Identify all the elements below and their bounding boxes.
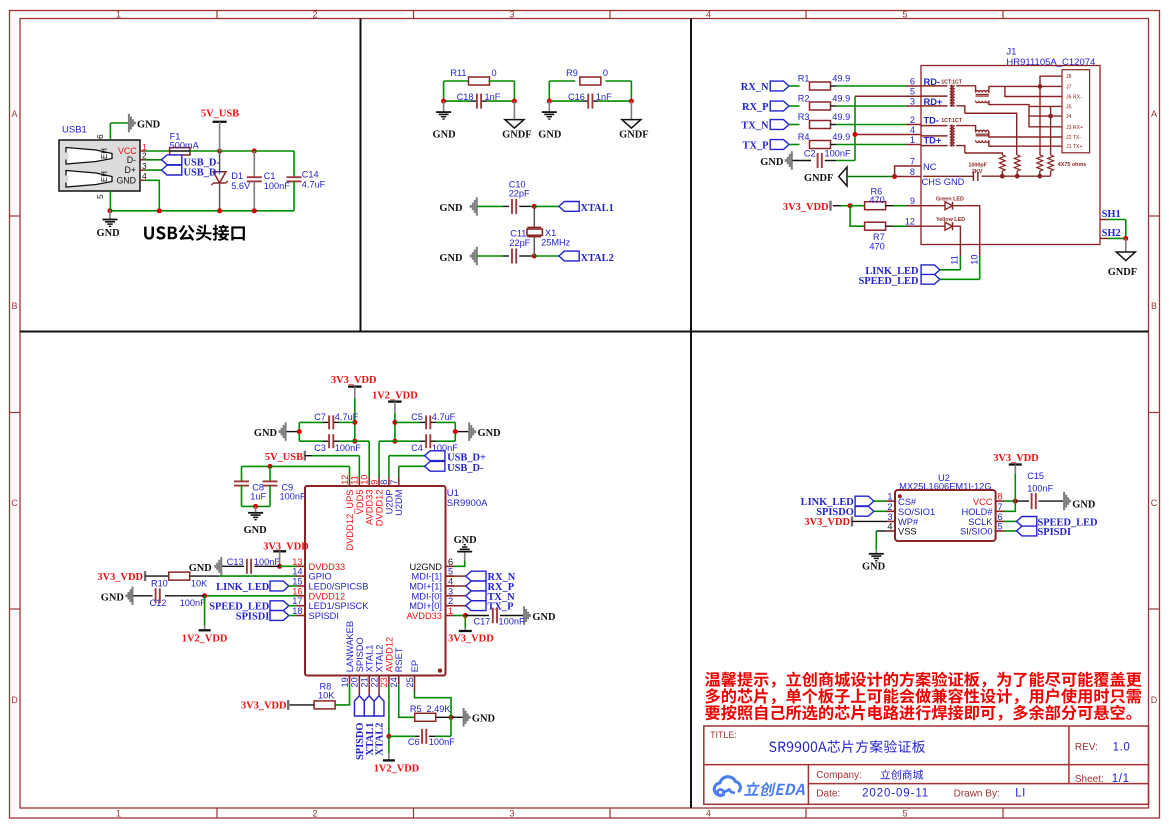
svg-text:0: 0 [492,68,497,78]
svg-text:R2: R2 [798,94,810,104]
svg-text:DVDD12: DVDD12 [374,490,384,527]
svg-text:C5: C5 [411,412,423,422]
svg-text:21: 21 [360,677,370,687]
svg-text:9: 9 [910,196,915,206]
svg-text:1uF: 1uF [250,492,266,502]
svg-text:3: 3 [887,512,892,522]
svg-text:49.9: 49.9 [832,74,850,84]
svg-text:GND: GND [97,228,120,239]
svg-text:Green LED: Green LED [936,196,964,202]
svg-text:LI: LI [1015,788,1026,800]
svg-text:GND: GND [439,203,462,214]
svg-text:TX_P: TX_P [488,602,515,613]
svg-text:C6: C6 [408,737,420,747]
svg-text:7: 7 [389,480,399,485]
svg-text:7: 7 [910,156,915,166]
svg-text:D-: D- [127,155,136,165]
svg-text:3V3_VDD: 3V3_VDD [241,701,287,712]
svg-text:2: 2 [448,596,453,606]
svg-text:CS#: CS# [898,497,917,507]
svg-text:C15: C15 [1027,471,1044,481]
svg-text:Sheet:: Sheet: [1075,774,1104,785]
svg-text:GND: GND [478,428,501,439]
svg-text:SPISDO: SPISDO [355,637,365,672]
svg-text:10: 10 [970,254,980,264]
svg-text:SCLK: SCLK [968,517,993,527]
svg-text:WP#: WP# [898,517,919,527]
svg-text:16: 16 [292,586,302,596]
svg-text:USB_D+: USB_D+ [184,168,223,179]
svg-text:J2 TX-: J2 TX- [1066,135,1081,141]
svg-text:GNDF: GNDF [502,129,531,140]
svg-text:4: 4 [706,9,711,19]
svg-text:MDI+[0]: MDI+[0] [409,601,442,611]
svg-text:12: 12 [340,475,350,485]
svg-text:J1: J1 [1006,47,1016,58]
svg-text:100nF: 100nF [280,492,306,502]
svg-text:3V3_VDD: 3V3_VDD [331,375,377,386]
svg-text:GND: GND [862,561,885,572]
svg-text:NC: NC [923,162,937,172]
svg-text:100nF: 100nF [264,181,290,191]
svg-text:R5: R5 [410,704,422,714]
svg-text:1nF: 1nF [596,92,612,102]
svg-text:3V3_VDD: 3V3_VDD [448,634,494,645]
svg-text:5: 5 [910,87,915,97]
svg-text:3V3_VDD: 3V3_VDD [993,453,1039,464]
svg-text:D: D [11,695,18,705]
svg-text:RSET: RSET [394,647,404,672]
svg-text:C7: C7 [314,412,326,422]
svg-text:USB1: USB1 [62,125,87,136]
svg-text:4.7uF: 4.7uF [302,179,326,189]
svg-text:TX_P: TX_P [743,140,770,151]
svg-text:20: 20 [350,677,360,687]
svg-text:RX_P: RX_P [742,102,769,113]
svg-text:LINK_LED: LINK_LED [216,582,269,593]
svg-text:500mA: 500mA [170,140,200,150]
svg-text:470: 470 [869,241,884,251]
svg-text:VCC: VCC [973,497,993,507]
svg-text:100nF: 100nF [429,737,455,747]
svg-text:4: 4 [448,577,453,587]
svg-text:6: 6 [448,557,453,567]
svg-text:2.49K: 2.49K [427,704,452,714]
svg-text:5: 5 [448,567,453,577]
svg-text:MDI-[0]: MDI-[0] [412,591,442,601]
svg-text:GND: GND [189,563,212,574]
svg-text:TITLE:: TITLE: [710,730,737,740]
svg-text:1nF: 1nF [485,92,501,102]
svg-text:GND: GND [472,714,495,725]
svg-text:SR9900A: SR9900A [447,498,488,509]
svg-text:U2DM: U2DM [394,490,404,516]
svg-text:TD+: TD+ [924,136,942,146]
svg-text:A: A [11,109,17,119]
svg-text:VDD5: VDD5 [355,490,365,515]
svg-text:2: 2 [312,9,317,19]
svg-text:12: 12 [905,217,915,227]
svg-text:C1: C1 [264,171,276,181]
svg-text:2: 2 [887,502,892,512]
svg-text:11: 11 [950,255,960,265]
svg-text:GPIO: GPIO [309,572,332,582]
svg-text:10K: 10K [318,691,335,701]
svg-text:GND: GND [439,253,462,264]
svg-text:C4: C4 [411,443,423,453]
svg-text:1.0: 1.0 [1113,741,1131,753]
svg-text:J4: J4 [1066,114,1072,120]
svg-text:R1: R1 [798,74,810,84]
svg-text:1: 1 [116,808,121,818]
svg-text:8: 8 [910,167,915,177]
svg-text:1CT:1CT: 1CT:1CT [941,80,963,86]
svg-text:C2: C2 [804,149,816,159]
svg-text:1V2_VDD: 1V2_VDD [372,390,418,401]
svg-text:VSS: VSS [898,527,917,537]
svg-text:SH1: SH1 [1102,209,1121,220]
svg-text:2KV: 2KV [972,169,983,175]
svg-text:SPEED_LED: SPEED_LED [858,276,918,287]
svg-text:J1 TX+: J1 TX+ [1066,144,1082,150]
svg-text:2020-09-11: 2020-09-11 [862,788,929,800]
svg-text:GND: GND [254,428,277,439]
svg-text:49.9: 49.9 [832,94,850,104]
svg-text:C16: C16 [568,92,585,102]
svg-text:3V3_VDD: 3V3_VDD [783,202,829,213]
svg-text:B: B [11,301,17,311]
svg-text:6: 6 [998,512,1003,522]
svg-text:XTAL2: XTAL2 [581,253,614,264]
svg-text:470: 470 [869,195,884,205]
svg-text:100nF: 100nF [1027,483,1053,493]
svg-text:D: D [1151,695,1158,705]
svg-text:10K: 10K [191,579,208,589]
svg-text:5V_USB: 5V_USB [265,452,303,463]
svg-text:3V3_VDD: 3V3_VDD [97,572,143,583]
svg-text:4: 4 [887,522,892,532]
svg-text:9: 9 [369,480,379,485]
svg-text:J7: J7 [1066,84,1072,90]
svg-text:XTAL2: XTAL2 [375,723,386,756]
svg-text:3: 3 [448,586,453,596]
svg-text:100nF: 100nF [180,598,206,608]
svg-text:C: C [11,498,18,508]
svg-text:13: 13 [292,557,302,567]
svg-text:Drawn By:: Drawn By: [954,789,1000,800]
svg-text:GND: GND [538,129,561,140]
svg-text:SPISDI: SPISDI [236,611,270,622]
svg-text:4X75 ohms: 4X75 ohms [1058,162,1086,168]
svg-text:2: 2 [910,115,915,125]
svg-text:GND: GND [532,612,555,623]
svg-text:DVDD33: DVDD33 [309,562,346,572]
svg-text:GND: GND [454,535,477,546]
svg-text:U2GND: U2GND [409,562,442,572]
svg-text:XTAL1: XTAL1 [581,203,614,214]
svg-text:LED1/SPISCK: LED1/SPISCK [309,601,370,611]
svg-text:22pF: 22pF [509,238,530,248]
svg-text:AVDD33: AVDD33 [365,490,375,525]
svg-text:GNDF: GNDF [619,129,648,140]
svg-text:GND: GND [116,176,136,186]
svg-text:HOLD#: HOLD# [961,507,993,517]
svg-text:1: 1 [910,135,915,145]
svg-text:GNDF: GNDF [1108,267,1137,278]
svg-text:0: 0 [603,68,608,78]
svg-text:Date:: Date: [816,789,840,800]
svg-text:8: 8 [998,492,1003,502]
svg-text:4.7uF: 4.7uF [432,412,456,422]
svg-text:3: 3 [910,96,915,106]
svg-text:R3: R3 [798,112,810,122]
svg-text:Company:: Company: [816,770,862,781]
svg-text:RX_N: RX_N [741,82,769,93]
svg-text:GND: GND [101,592,124,603]
svg-text:USB_D-: USB_D- [447,463,484,474]
svg-text:C18: C18 [457,92,474,102]
svg-text:LANWAKEB: LANWAKEB [345,621,355,672]
svg-text:DVDD12: DVDD12 [309,591,346,601]
svg-text:R11: R11 [450,68,466,78]
svg-text:2: 2 [312,808,317,818]
svg-text:EH: EH [100,148,109,159]
svg-text:C17: C17 [473,616,490,626]
svg-text:1: 1 [448,606,453,616]
svg-text:10: 10 [360,475,370,485]
svg-text:1/1: 1/1 [1112,773,1130,785]
svg-text:USB_D-: USB_D- [184,157,221,168]
svg-text:U2DP: U2DP [384,490,394,515]
svg-text:R10: R10 [151,579,168,589]
svg-text:J3 RX+: J3 RX+ [1066,125,1083,131]
svg-text:A: A [1151,109,1157,119]
svg-text:14: 14 [292,567,302,577]
svg-text:25MHz: 25MHz [541,238,571,248]
svg-text:5: 5 [95,194,105,199]
svg-text:1V2_VDD: 1V2_VDD [182,633,228,644]
svg-text:EH: EH [100,171,109,182]
svg-text:1V2_VDD: 1V2_VDD [374,763,420,774]
svg-text:15: 15 [292,577,302,587]
svg-text:3V3_VDD: 3V3_VDD [804,517,850,528]
svg-text:DVDD12_UPS: DVDD12_UPS [345,490,355,551]
svg-text:R7: R7 [873,232,885,242]
svg-text:24: 24 [389,677,399,687]
svg-text:5: 5 [998,522,1003,532]
svg-text:22pF: 22pF [509,189,530,199]
svg-text:C: C [1151,498,1158,508]
svg-text:11: 11 [350,475,360,485]
svg-text:GNDF: GNDF [804,173,833,184]
svg-text:8: 8 [379,480,389,485]
svg-text:R9: R9 [566,68,578,78]
svg-text:22: 22 [369,677,379,687]
svg-text:100nF: 100nF [499,616,525,626]
svg-text:C13: C13 [227,557,244,567]
svg-text:17: 17 [292,596,302,606]
svg-text:C14: C14 [302,170,319,180]
svg-text:AVDD33: AVDD33 [407,611,442,621]
svg-text:MDI+[1]: MDI+[1] [409,582,442,592]
svg-text:6: 6 [95,134,105,139]
svg-text:GND: GND [244,525,267,536]
svg-text:49.9: 49.9 [832,112,850,122]
svg-text:XTAL2: XTAL2 [374,645,384,673]
svg-text:AVDD12: AVDD12 [384,637,394,672]
svg-text:USB_D+: USB_D+ [447,453,486,464]
svg-text:5: 5 [902,808,907,818]
svg-text:100nF: 100nF [825,149,851,159]
svg-text:SH2: SH2 [1102,228,1121,239]
svg-text:5V_USB: 5V_USB [201,109,239,120]
svg-text:J6 RX-: J6 RX- [1066,95,1082,101]
svg-text:J5: J5 [1066,104,1072,110]
svg-text:C3: C3 [314,443,326,453]
svg-text:D+: D+ [125,165,137,175]
svg-text:C11: C11 [510,228,526,238]
svg-text:B: B [1151,301,1157,311]
svg-text:49.9: 49.9 [832,132,850,142]
svg-text:LED0/SPICSB: LED0/SPICSB [309,582,369,592]
svg-text:GND: GND [137,119,160,130]
svg-text:SPISDI: SPISDI [1038,527,1072,538]
svg-text:CHS GND: CHS GND [922,177,965,187]
svg-text:23: 23 [379,677,389,687]
svg-text:4.7uF: 4.7uF [335,412,359,422]
svg-text:J8: J8 [1066,74,1072,80]
svg-text:19: 19 [340,677,350,687]
svg-text:5: 5 [902,9,907,19]
svg-text:TX_N: TX_N [741,120,769,131]
svg-text:GND: GND [760,157,783,168]
svg-text:SPISDI: SPISDI [309,611,339,621]
svg-text:SI/SIO0: SI/SIO0 [960,527,993,537]
svg-text:1CT:1CT: 1CT:1CT [941,118,963,124]
svg-text:1: 1 [116,9,121,19]
svg-text:1: 1 [887,492,892,502]
svg-text:100nF: 100nF [335,443,361,453]
svg-text:GND: GND [1072,499,1095,510]
svg-text:25: 25 [405,677,415,687]
svg-text:GND: GND [433,129,456,140]
svg-text:D1: D1 [231,171,243,181]
svg-text:SO/SIO1: SO/SIO1 [898,507,935,517]
svg-text:4: 4 [706,808,711,818]
svg-text:HR911105A_C12074: HR911105A_C12074 [1006,57,1095,68]
svg-text:3: 3 [509,9,514,19]
svg-text:C12: C12 [150,598,167,608]
svg-text:18: 18 [292,606,302,616]
svg-text:100nF: 100nF [254,557,280,567]
svg-text:1000pF: 1000pF [968,162,987,168]
svg-text:7: 7 [998,502,1003,512]
svg-text:EP: EP [410,660,420,672]
svg-text:6: 6 [910,76,915,86]
svg-text:REV:: REV: [1075,742,1098,753]
svg-text:TD-: TD- [924,116,940,126]
svg-text:R4: R4 [798,132,810,142]
svg-text:3: 3 [509,808,514,818]
svg-text:4: 4 [910,125,915,135]
svg-text:MDI-[1]: MDI-[1] [412,572,442,582]
svg-text:Yellow LED: Yellow LED [936,217,965,223]
svg-text:XTAL1: XTAL1 [365,645,375,673]
